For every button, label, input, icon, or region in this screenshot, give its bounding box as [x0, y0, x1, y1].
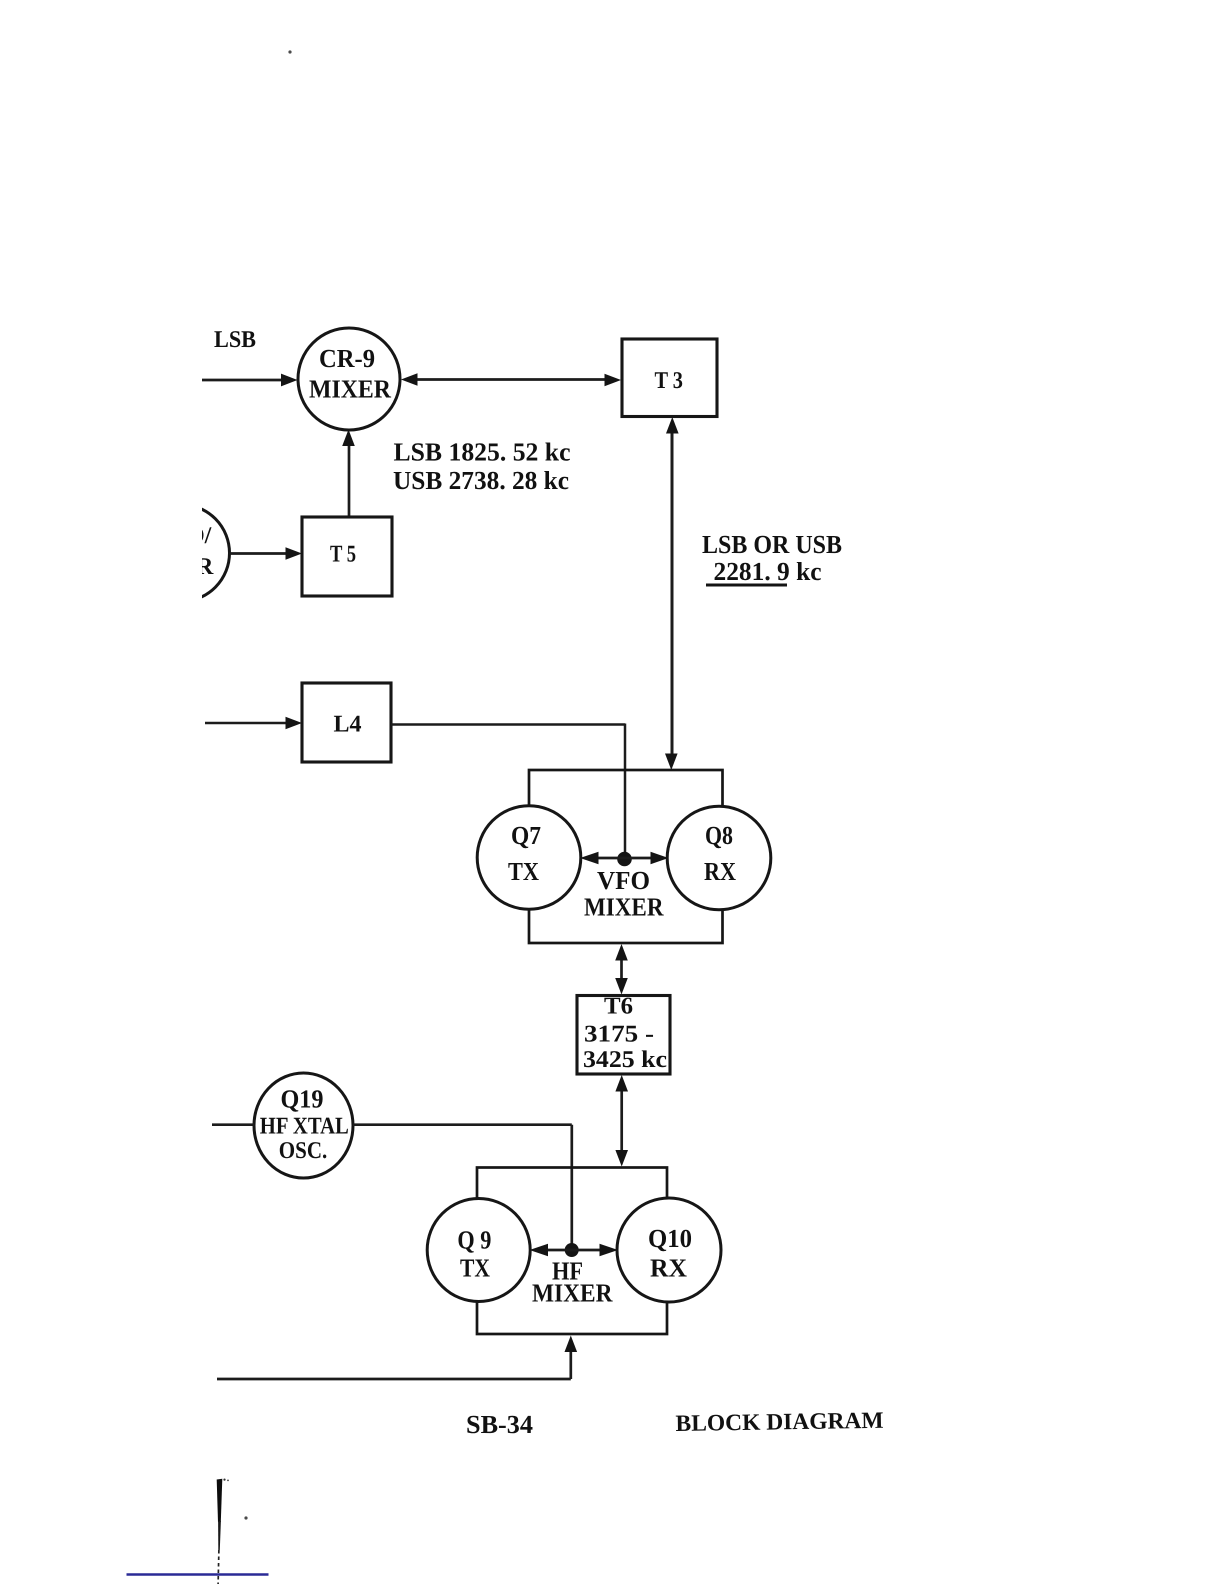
- speck top: [288, 50, 291, 53]
- transformer T6: [577, 994, 670, 1075]
- svg-text:R: R: [196, 554, 214, 580]
- blue pen line: [127, 1573, 269, 1576]
- mixer CR-9: [298, 328, 400, 430]
- pen stroke bottom left: [217, 1479, 229, 1584]
- transformer T3: [622, 339, 717, 417]
- clipped circle block at left edge: [133, 505, 230, 602]
- svg-text:2281. 9 kc: 2281. 9 kc: [714, 557, 822, 586]
- svg-text:L4: L4: [334, 712, 362, 738]
- svg-text:OSC.: OSC.: [279, 1138, 328, 1164]
- wire T6 to HF mixer double arrow: [615, 1075, 628, 1167]
- wire T5 up to CR-9: [342, 430, 355, 517]
- transistor Q7: [477, 806, 581, 910]
- inductor L4: [302, 683, 391, 762]
- block HF mixer: [477, 1168, 667, 1335]
- wire VFO junction to Q7 and Q8 double arrow: [580, 852, 669, 864]
- junction dot HF: [565, 1243, 579, 1257]
- transistor Q9: [427, 1199, 530, 1302]
- svg-text:T 5: T 5: [330, 542, 356, 568]
- wire HF junction to Q9 and Q10 double arrow: [530, 1244, 619, 1256]
- transformer T5: [302, 517, 392, 596]
- speck bottom: [244, 1516, 247, 1519]
- wire L4 to VFO mixer junction: [391, 724, 625, 859]
- svg-text:MIXER: MIXER: [584, 893, 664, 922]
- label 2281.9 kc underlined: [706, 557, 822, 587]
- svg-text:LSB 1825. 52 kc: LSB 1825. 52 kc: [394, 438, 571, 467]
- svg-text:TX: TX: [460, 1254, 490, 1283]
- svg-text:HF XTAL: HF XTAL: [260, 1114, 349, 1140]
- svg-text:Q7: Q7: [511, 821, 541, 850]
- svg-text:RX: RX: [650, 1254, 687, 1283]
- svg-text:LSB OR USB: LSB OR USB: [702, 530, 842, 559]
- svg-text:SB-34: SB-34: [466, 1410, 533, 1439]
- svg-text:O/: O/: [186, 523, 212, 549]
- svg-text:T 3: T 3: [655, 368, 684, 394]
- block VFO mixer: [529, 770, 723, 943]
- label VFO MIXER: [584, 866, 664, 922]
- svg-text:T6: T6: [604, 994, 633, 1020]
- svg-text:LSB: LSB: [214, 327, 256, 353]
- oscillator Q19: [254, 1073, 353, 1178]
- svg-text:USB 2738. 28 kc: USB 2738. 28 kc: [393, 466, 569, 495]
- transistor Q10: [617, 1198, 721, 1302]
- wire clipped circle to T5: [229, 547, 302, 560]
- wire input to Q19: [212, 1123, 254, 1126]
- svg-text:Q10: Q10: [648, 1224, 692, 1253]
- svg-text:Q8: Q8: [705, 821, 733, 850]
- svg-text:CR-9: CR-9: [319, 344, 375, 373]
- wire input to L4: [205, 717, 302, 730]
- svg-text:MIXER: MIXER: [309, 375, 391, 404]
- wire CR-9 to T3 double arrow: [401, 373, 621, 386]
- wire bottom input to HF mixer: [217, 1336, 577, 1380]
- svg-text:MIXER: MIXER: [532, 1279, 613, 1308]
- wire Q19 to HF mixer junction: [353, 1125, 572, 1250]
- svg-text:Q 9: Q 9: [457, 1226, 491, 1255]
- label HF MIXER: [532, 1257, 613, 1308]
- svg-text:Q19: Q19: [281, 1085, 324, 1114]
- svg-text:3175 -: 3175 -: [584, 1022, 654, 1048]
- transistor Q8: [667, 806, 771, 910]
- wire T3 to VFO mixer double arrow: [665, 417, 679, 770]
- svg-text:TX: TX: [508, 857, 539, 886]
- junction dot VFO: [617, 852, 632, 867]
- svg-text:VFO: VFO: [597, 866, 650, 895]
- wire LSB input to CR-9: [202, 374, 298, 387]
- svg-text:BLOCK DIAGRAM: BLOCK DIAGRAM: [675, 1408, 883, 1437]
- svg-text:3425 kc: 3425 kc: [583, 1047, 667, 1073]
- svg-text:RX: RX: [704, 857, 736, 886]
- wire VFO mixer to T6 double arrow: [615, 944, 628, 995]
